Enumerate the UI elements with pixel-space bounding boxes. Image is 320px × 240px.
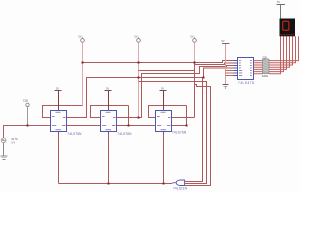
svg-text:5V: 5V: [222, 40, 225, 43]
display pin dots: [281, 34, 294, 35]
wire Q2 tap to AND input 2: [139, 82, 207, 184]
svg-text:74LS76N: 74LS76N: [67, 132, 82, 136]
node dot D tap on Q1 line: [203, 77, 205, 79]
power probe 5V circle 1: [79, 36, 85, 43]
wire loop over FF2 J tie: [91, 106, 129, 126]
flip-flop U1B 74LS76N: [101, 108, 133, 136]
wire loop over FF1 J tie: [43, 106, 83, 118]
node CLK input connector: [23, 99, 29, 107]
wire Q3 line to probe3 vertical: [172, 117, 195, 119]
wire Q2 line riser bus C into U2 pin3: [117, 66, 238, 118]
svg-text:74LS76N: 74LS76N: [117, 132, 132, 136]
svg-text:74LS76N: 74LS76N: [172, 131, 187, 135]
wire probe2 vertical 5V to Q2 line: [138, 43, 140, 118]
wire VCC drop to FF1 PRE: [58, 91, 60, 108]
wire staircase f: [269, 36, 284, 71]
node dot CLR bus at FF2: [108, 183, 110, 185]
svg-text:CLK: CLK: [23, 99, 28, 103]
power VCC 5V T-bar above FF at x=58.5: [55, 87, 62, 90]
svg-text:5 V: 5 V: [12, 142, 16, 145]
svg-text:82 Hz: 82 Hz: [12, 138, 19, 141]
power probe 5V circle 3: [191, 36, 197, 43]
AND gate U5 74LS11N: [173, 180, 188, 191]
node dot loop2 at clk line: [128, 125, 130, 127]
node dot rail at probe2: [138, 62, 140, 64]
wire VCC drop to FF2 PRE: [108, 91, 110, 108]
node dot rail at probe3: [194, 62, 196, 64]
ground under source: [1, 156, 8, 159]
wire U2 outputs to resistor pack: [254, 61, 263, 74]
wire clock chain Q2b to FF3 CLK: [117, 125, 156, 127]
wire loop over FF3 J tie: [149, 106, 187, 126]
wire staircase g: [269, 36, 281, 74]
ground below U2: [223, 85, 229, 88]
node dot source CLK junction: [27, 125, 29, 127]
svg-text:5V: 5V: [277, 1, 280, 4]
node dot CLR bus at FF3: [163, 183, 165, 185]
wire staircase d: [269, 36, 290, 67]
wire D tap from Q1 line into U2 pin4: [204, 68, 238, 78]
IC U2 74LS47D BCD to seven segment decoder: [234, 58, 255, 86]
svg-text:5V: 5V: [79, 36, 82, 39]
wire source ground stub: [3, 143, 5, 156]
clock source V1: [1, 138, 18, 145]
svg-text:74LS47D: 74LS47D: [238, 81, 255, 85]
segment digit 0: [282, 21, 289, 31]
and gate output stub: [173, 182, 177, 184]
wire bus rail A into U2 pin1: [83, 61, 238, 63]
wire staircase e: [269, 36, 287, 69]
wire VCC drop to FF3 PRE: [163, 91, 165, 108]
wire staircase b: [269, 36, 296, 63]
power VCC 5V T-bar above FF at x=163.5: [160, 87, 167, 90]
power VCC T-bar above display: [277, 1, 286, 4]
node dot Q1 line at probe2: [138, 77, 140, 79]
wire Q1 to riser to AND input 1: [67, 78, 203, 182]
wire staircase c: [269, 36, 293, 65]
flip-flop U3A 74LS76N: [156, 108, 187, 135]
power VCC T-bar for U2 control pins: [222, 40, 230, 44]
power probe 5V circle 2: [135, 36, 141, 43]
7-segment display: [280, 19, 296, 37]
wire Q3b stub to loop3: [172, 125, 187, 127]
svg-text:74LS11N: 74LS11N: [173, 187, 188, 191]
resistor pack 220 ohm: [262, 56, 269, 78]
wire Q2 bus B into U2 pin2: [139, 63, 238, 71]
svg-text:5V: 5V: [135, 36, 138, 39]
power VCC 5V T-bar above FF at x=108.5: [105, 87, 112, 90]
wire pack to display staircase a: [269, 36, 299, 60]
wire clock from source V1 up and to U1A CLK: [4, 126, 51, 139]
svg-text:220Ω: 220Ω: [262, 74, 268, 78]
wire display VCC stem: [280, 5, 282, 19]
wire probe3 vertical 5V to Q3 line: [194, 43, 196, 63]
node dot rail at probe1: [82, 62, 84, 64]
wire VCC T drop to U2 control pins: [225, 44, 227, 84]
wire CLK connector stem: [27, 107, 29, 126]
wire clock chain Q1b to FF2 CLK: [67, 125, 101, 127]
wire probe1 vertical 5V to FF1 loop: [82, 43, 84, 106]
node dot Q2 line at probe2 end: [138, 117, 140, 119]
wire CLR reset bus from AND output: [59, 183, 173, 185]
svg-text:5V: 5V: [191, 36, 194, 39]
wire CLR drops from FF bottoms: [59, 134, 164, 184]
wire Q3 jog to AND input 3: [185, 85, 211, 186]
flip-flop U1A 74LS76N: [51, 108, 83, 136]
node dot loop3 at clk line: [186, 125, 188, 127]
